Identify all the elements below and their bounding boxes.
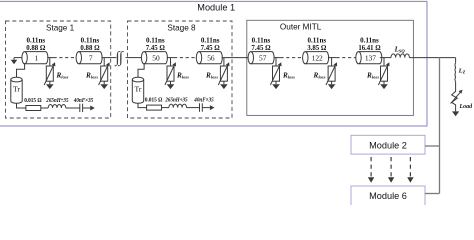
svg-text:16.41 Ω: 16.41 Ω: [358, 44, 381, 52]
transmission line 50: [141, 52, 167, 64]
svg-text:Tr: Tr: [135, 84, 142, 93]
wire resistor to inductor (stage 1): [41, 107, 48, 109]
wire module 6 to rail: [425, 193, 440, 195]
inductor Lsq: [391, 54, 409, 58]
svg-text:LZ: LZ: [458, 68, 466, 75]
svg-text:57: 57: [259, 53, 267, 62]
wire module1 output (Lsq to Lz corner): [409, 57, 455, 59]
variable resistor R2 (Rloss): [103, 58, 105, 66]
svg-text:Rloss: Rloss: [56, 72, 69, 80]
svg-text:Rloss: Rloss: [366, 72, 379, 80]
variable resistor R4 (Rloss): [223, 58, 225, 66]
outer MITL enclosure: [247, 20, 414, 115]
wire transformer Tr8 to line50 (step): [138, 64, 144, 78]
wire line1 input to ground: [14, 57, 22, 59]
wire rail (module2 to module6): [439, 146, 441, 194]
svg-text:Rloss: Rloss: [85, 72, 98, 80]
resistor 0.015 Ω (stage 1): [26, 106, 41, 111]
load resistor (variable): [452, 91, 458, 106]
wire line1 output: [47, 57, 53, 59]
variable resistor R3 (Rloss): [170, 58, 172, 66]
svg-text:Module 6: Module 6: [369, 191, 407, 201]
repetition arrow 2 (module 2 to module 6, dashed): [390, 157, 392, 178]
svg-text:0.015 Ω: 0.015 Ω: [24, 98, 42, 104]
svg-text:Rloss: Rloss: [282, 72, 295, 80]
wire transformer Tr1 to line1 (step): [17, 64, 25, 78]
svg-text:∫∫: ∫∫: [114, 49, 124, 66]
wire break to line50: [126, 57, 142, 59]
svg-text:7.45 Ω: 7.45 Ω: [146, 44, 166, 52]
svg-text:3.85 Ω: 3.85 Ω: [307, 44, 327, 52]
svg-text:Rloss: Rloss: [176, 72, 189, 80]
capacitor 40nF×35 (stage 8): [199, 103, 201, 111]
ground arrow (stage 1 series branch): [90, 106, 95, 111]
transformer Tr (stage 1): [11, 77, 22, 103]
ground under R5: [275, 81, 277, 84]
wire inductor to capacitor (stage 1): [66, 107, 80, 109]
wire (dashed) line1 to line7: [54, 57, 77, 59]
transmission line 1: [22, 52, 48, 64]
ground under R3: [170, 81, 172, 84]
svg-text:56: 56: [207, 53, 215, 62]
svg-text:265nH÷35: 265nH÷35: [165, 98, 188, 104]
ground arrow (stage 8 series branch): [210, 105, 215, 110]
svg-text:7.45 Ω: 7.45 Ω: [201, 44, 221, 52]
transmission line 56: [196, 52, 222, 64]
variable resistor R1 (Rloss): [49, 58, 51, 66]
svg-text:0.88 Ω: 0.88 Ω: [26, 44, 46, 52]
wire line7 output to stage edge: [101, 57, 116, 59]
wire rail junction down (node to modules rail): [439, 58, 441, 146]
svg-text:7: 7: [89, 53, 93, 62]
wire line50 output: [167, 57, 174, 59]
inductor 265nH÷35 (stage 8): [169, 104, 187, 108]
repetition arrow 1 (module 2 to module 6, dashed): [370, 157, 372, 178]
svg-text:0.88 Ω: 0.88 Ω: [80, 44, 100, 52]
inductor 265nH÷35 (stage 1): [48, 104, 66, 108]
svg-text:LSQ: LSQ: [394, 46, 406, 54]
svg-text:Load: Load: [459, 104, 474, 110]
wire module 2 to rail: [425, 145, 440, 147]
wire capacitor to ground arrow (stage 8): [202, 107, 210, 109]
ground under R6: [331, 81, 333, 84]
svg-text:50: 50: [152, 53, 160, 62]
wire (dashed) line50 to line56: [174, 57, 196, 59]
stage 8 enclosure (dashed): [128, 21, 233, 118]
ground under R2: [103, 81, 105, 84]
wire resistor to inductor (stage 8): [162, 107, 169, 109]
ground under R4: [223, 81, 225, 84]
wire capacitor to ground arrow (stage 1): [83, 107, 91, 109]
svg-text:122: 122: [312, 53, 323, 62]
svg-text:Stage 8: Stage 8: [167, 23, 196, 32]
svg-text:40nF×35: 40nF×35: [193, 98, 213, 104]
wire line56 output to outer MITL: [222, 57, 249, 59]
svg-text:Tr: Tr: [13, 84, 20, 93]
svg-text:1: 1: [35, 53, 39, 62]
wire Tr8 to series branch: [138, 103, 147, 107]
transmission line 57: [248, 52, 274, 64]
wire (dashed) line57 to line122: [280, 57, 302, 59]
wire line122 output: [328, 57, 336, 59]
svg-text:7.45 Ω: 7.45 Ω: [251, 44, 271, 52]
module 6 box: [351, 186, 425, 206]
stage 1 enclosure (dashed): [6, 21, 111, 118]
module 1 enclosure box: [0, 1, 427, 126]
wire line137 output to inductor Lsq: [380, 57, 391, 59]
svg-text:265nH÷35: 265nH÷35: [45, 98, 68, 104]
module 2 box: [351, 135, 425, 154]
transmission line 122: [303, 52, 329, 64]
repetition arrow 3 (module 2 to module 6, dashed): [409, 157, 411, 178]
variable resistor R6 (Rloss): [331, 58, 333, 66]
wire Lz corner down: [455, 58, 457, 63]
wire Tr1 to series branch: [17, 103, 26, 108]
ground under R1: [49, 81, 51, 84]
capacitor 40nF×35 (stage 1): [79, 104, 81, 112]
svg-text:Rloss: Rloss: [313, 72, 326, 80]
ground under R7: [383, 81, 385, 84]
svg-text:Rloss: Rloss: [205, 72, 218, 80]
wire Lz to load: [455, 82, 457, 92]
transmission line 7: [76, 52, 102, 64]
ground under load: [455, 106, 457, 111]
inductor Lz: [454, 63, 457, 82]
svg-text:137: 137: [365, 53, 376, 62]
ground G1 (input of stage 1): [13, 58, 15, 60]
wire line57 output: [274, 57, 281, 59]
svg-text:Outer MITL: Outer MITL: [280, 22, 322, 31]
svg-text:40nF×35: 40nF×35: [73, 98, 93, 104]
svg-text:Stage 1: Stage 1: [46, 23, 75, 32]
variable resistor R7 (Rloss): [383, 58, 385, 66]
transformer Tr (stage 8): [132, 77, 143, 103]
svg-text:Module 2: Module 2: [369, 140, 407, 150]
transmission line 137: [356, 52, 382, 64]
resistor 0.015 Ω (stage 8): [147, 105, 162, 110]
wire inductor to capacitor (stage 8): [187, 107, 200, 109]
svg-text:0.015 Ω: 0.015 Ω: [145, 98, 163, 104]
variable resistor R5 (Rloss): [275, 58, 277, 66]
wire (dashed) line122 to line137: [336, 57, 355, 59]
svg-text:Module 1: Module 1: [197, 3, 235, 13]
